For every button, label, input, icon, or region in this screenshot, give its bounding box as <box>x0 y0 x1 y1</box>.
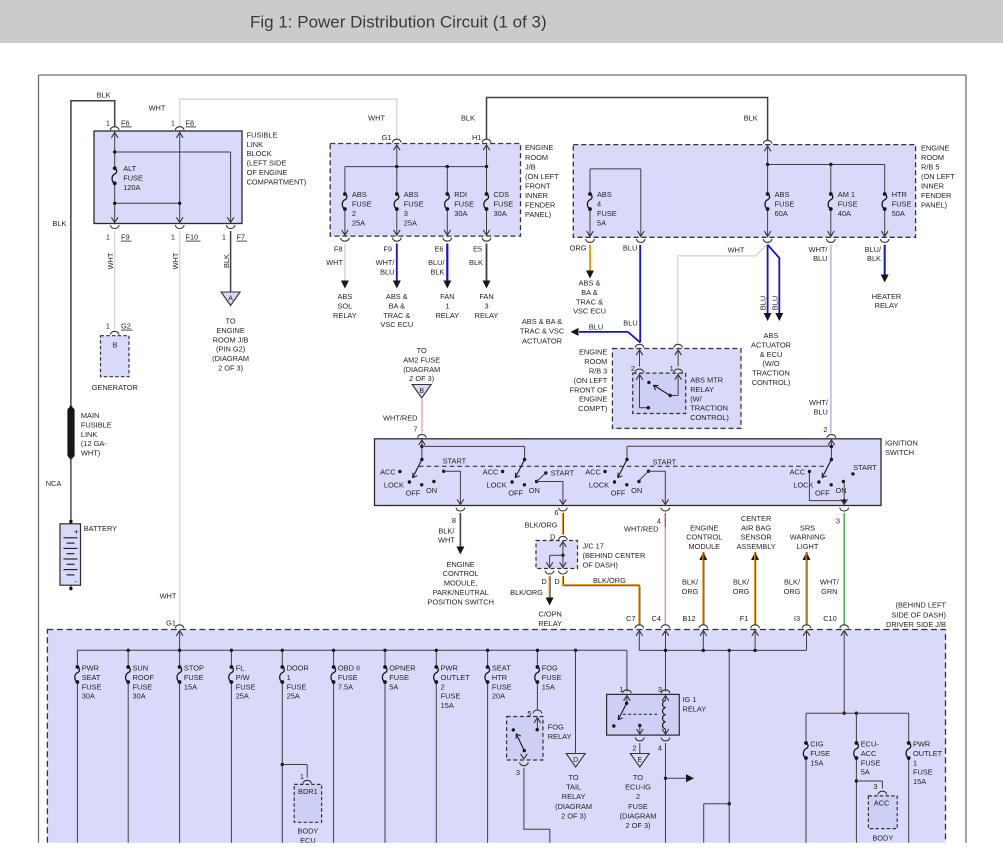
svg-text:SIDE OF DASH): SIDE OF DASH) <box>891 610 946 619</box>
svg-text:ABS &: ABS & <box>386 292 408 301</box>
svg-text:2 OF 3): 2 OF 3) <box>561 811 586 820</box>
svg-text:ON: ON <box>836 486 847 495</box>
svg-text:BLK: BLK <box>431 268 445 277</box>
svg-text:BLK/: BLK/ <box>682 578 699 587</box>
svg-text:30A: 30A <box>454 209 467 218</box>
svg-text:BODY: BODY <box>297 827 318 836</box>
svg-text:3: 3 <box>658 685 662 694</box>
svg-text:FUSE: FUSE <box>492 682 512 691</box>
svg-text:PWR: PWR <box>82 664 99 673</box>
svg-text:P/W: P/W <box>236 673 250 682</box>
svg-text:DOOR: DOOR <box>287 664 309 673</box>
svg-text:FUSE: FUSE <box>913 768 933 777</box>
svg-text:HTR: HTR <box>892 190 907 199</box>
svg-text:FENDER: FENDER <box>921 191 951 200</box>
svg-text:RELAY: RELAY <box>435 311 459 320</box>
svg-text:TRACTION: TRACTION <box>690 404 728 413</box>
svg-text:2: 2 <box>352 209 356 218</box>
svg-text:RDI: RDI <box>454 190 467 199</box>
svg-text:BLK/: BLK/ <box>784 578 801 587</box>
svg-text:SWITCH: SWITCH <box>885 448 914 457</box>
svg-text:LOCK: LOCK <box>793 480 813 489</box>
svg-text:J/C 17: J/C 17 <box>583 542 604 551</box>
svg-text:WHT: WHT <box>160 591 177 600</box>
svg-text:OFF: OFF <box>406 489 421 498</box>
svg-text:F10: F10 <box>186 233 199 242</box>
svg-text:SOL: SOL <box>338 301 353 310</box>
svg-text:WHT: WHT <box>106 252 115 269</box>
svg-text:15A: 15A <box>542 682 555 691</box>
svg-text:FUSE: FUSE <box>628 802 648 811</box>
svg-text:RELAY: RELAY <box>683 705 707 714</box>
svg-text:3: 3 <box>516 768 520 777</box>
svg-text:BA &: BA & <box>581 288 598 297</box>
svg-text:20A: 20A <box>492 692 505 701</box>
svg-text:F6: F6 <box>121 118 130 127</box>
svg-text:2 OF 3): 2 OF 3) <box>218 364 243 373</box>
svg-text:25A: 25A <box>404 218 417 227</box>
svg-text:RELAY: RELAY <box>538 619 562 628</box>
svg-text:ENGINE: ENGINE <box>525 143 553 152</box>
svg-text:1: 1 <box>445 301 449 310</box>
svg-text:D: D <box>541 577 546 586</box>
svg-text:BLU: BLU <box>758 296 767 310</box>
svg-text:C4: C4 <box>652 614 661 623</box>
svg-text:E5: E5 <box>473 244 482 253</box>
svg-text:(DIAGRAM: (DIAGRAM <box>212 354 249 363</box>
svg-text:OUTLET: OUTLET <box>913 749 943 758</box>
svg-text:RELAY: RELAY <box>562 792 586 801</box>
svg-text:ABS: ABS <box>597 190 612 199</box>
svg-text:SUN: SUN <box>133 664 149 673</box>
svg-text:F7: F7 <box>237 233 246 242</box>
svg-text:RELAY: RELAY <box>690 385 714 394</box>
svg-text:15A: 15A <box>441 701 454 710</box>
svg-text:OUTLET: OUTLET <box>441 673 471 682</box>
svg-text:25A: 25A <box>287 692 300 701</box>
svg-text:WHT/RED: WHT/RED <box>624 525 659 534</box>
svg-text:ECU-IG: ECU-IG <box>625 783 651 792</box>
svg-text:2: 2 <box>823 425 827 434</box>
svg-text:FUSE: FUSE <box>389 673 409 682</box>
svg-text:WHT/: WHT/ <box>809 245 829 254</box>
svg-text:ACC: ACC <box>380 467 396 476</box>
svg-text:COMPT): COMPT) <box>578 404 607 413</box>
svg-text:BDR1: BDR1 <box>298 787 318 796</box>
svg-text:ACC: ACC <box>874 799 890 808</box>
svg-text:(W/: (W/ <box>690 394 702 403</box>
svg-text:CDS: CDS <box>494 190 510 199</box>
svg-text:BLU/: BLU/ <box>428 258 445 267</box>
svg-text:ENGINE: ENGINE <box>921 143 949 152</box>
svg-text:4: 4 <box>658 743 662 752</box>
svg-text:5A: 5A <box>389 682 398 691</box>
svg-text:LINK: LINK <box>247 140 264 149</box>
svg-text:ABS: ABS <box>338 292 353 301</box>
svg-text:WHT/: WHT/ <box>820 578 840 587</box>
svg-text:ORG: ORG <box>784 587 801 596</box>
svg-text:TO: TO <box>633 773 643 782</box>
svg-text:CIG: CIG <box>810 740 823 749</box>
svg-text:BA &: BA & <box>389 301 406 310</box>
svg-text:WHT: WHT <box>438 536 455 545</box>
svg-text:ACC: ACC <box>483 467 499 476</box>
svg-text:7.5A: 7.5A <box>338 682 353 691</box>
svg-text:AIR BAG: AIR BAG <box>741 523 771 532</box>
svg-text:ABS: ABS <box>764 331 779 340</box>
svg-text:ABS MTR: ABS MTR <box>690 376 723 385</box>
svg-text:F9: F9 <box>121 233 130 242</box>
svg-text:50A: 50A <box>892 209 905 218</box>
svg-text:(PIN G2): (PIN G2) <box>216 345 245 354</box>
svg-text:ROOM J/B: ROOM J/B <box>213 335 249 344</box>
svg-text:1: 1 <box>106 322 110 331</box>
svg-text:ALT: ALT <box>123 164 136 173</box>
svg-text:OFF: OFF <box>611 489 626 498</box>
svg-text:WHT: WHT <box>326 258 343 267</box>
svg-text:BLU: BLU <box>813 254 827 263</box>
svg-text:TAIL: TAIL <box>566 783 581 792</box>
svg-text:FUSE: FUSE <box>454 200 474 209</box>
svg-text:5A: 5A <box>861 768 870 777</box>
svg-text:RELAY: RELAY <box>475 311 499 320</box>
svg-text:FUSE: FUSE <box>123 174 143 183</box>
svg-text:BLK/ORG: BLK/ORG <box>593 576 626 585</box>
svg-text:TO: TO <box>226 317 236 326</box>
svg-text:(12 GA-: (12 GA- <box>81 439 107 448</box>
svg-text:FUSE: FUSE <box>352 200 372 209</box>
svg-text:HEATER: HEATER <box>872 292 901 301</box>
svg-text:FUSE: FUSE <box>542 673 562 682</box>
svg-text:PARK/NEUTRAL: PARK/NEUTRAL <box>433 588 489 597</box>
svg-text:LIGHT: LIGHT <box>797 542 819 551</box>
svg-text:3: 3 <box>484 301 488 310</box>
svg-text:(W/O: (W/O <box>762 359 779 368</box>
svg-text:TRAC &: TRAC & <box>383 311 410 320</box>
svg-text:(ON LEFT: (ON LEFT <box>525 172 559 181</box>
svg-text:PANEL): PANEL) <box>525 210 551 219</box>
svg-text:INNER: INNER <box>921 182 944 191</box>
svg-text:BLU: BLU <box>623 244 637 253</box>
svg-text:FUSE: FUSE <box>441 692 461 701</box>
svg-text:CONTROL: CONTROL <box>443 569 479 578</box>
svg-text:BLK/ORG: BLK/ORG <box>525 521 558 530</box>
svg-text:FAN: FAN <box>440 292 454 301</box>
svg-text:ACC: ACC <box>790 467 806 476</box>
svg-text:R/B 5: R/B 5 <box>921 163 939 172</box>
svg-text:COMPARTMENT): COMPARTMENT) <box>247 177 307 186</box>
svg-text:WHT/RED: WHT/RED <box>383 414 418 423</box>
svg-text:PWR: PWR <box>913 740 930 749</box>
svg-text:1: 1 <box>913 758 917 767</box>
svg-text:ON: ON <box>426 486 437 495</box>
svg-text:OFF: OFF <box>508 489 523 498</box>
svg-text:MODULE: MODULE <box>688 542 720 551</box>
svg-text:IGNITION: IGNITION <box>885 439 918 448</box>
svg-text:(DIAGRAM: (DIAGRAM <box>555 802 592 811</box>
svg-text:TRAC &: TRAC & <box>576 297 603 306</box>
svg-text:F8: F8 <box>334 244 343 253</box>
svg-text:ABS: ABS <box>352 190 367 199</box>
svg-text:BLK: BLK <box>53 219 67 228</box>
svg-text:3: 3 <box>836 516 840 525</box>
svg-text:I3: I3 <box>794 614 800 623</box>
svg-text:BODY: BODY <box>872 834 893 843</box>
svg-text:R/B 3: R/B 3 <box>589 367 607 376</box>
svg-text:1: 1 <box>171 118 175 127</box>
svg-text:IG 1: IG 1 <box>683 695 697 704</box>
svg-text:CONTROL: CONTROL <box>686 533 722 542</box>
svg-text:CONTROL): CONTROL) <box>752 378 791 387</box>
svg-text:BLK/ORG: BLK/ORG <box>510 588 543 597</box>
svg-text:WHT: WHT <box>149 104 166 113</box>
svg-text:RELAY: RELAY <box>548 732 572 741</box>
svg-text:D: D <box>573 757 578 764</box>
svg-text:2 OF 3): 2 OF 3) <box>625 821 650 830</box>
svg-text:AM2 FUSE: AM2 FUSE <box>403 355 440 364</box>
svg-text:7: 7 <box>413 425 417 434</box>
svg-text:Fig 1: Power Distribution Circ: Fig 1: Power Distribution Circuit (1 of … <box>250 13 547 32</box>
svg-text:BLU: BLU <box>380 268 394 277</box>
svg-text:15A: 15A <box>184 682 197 691</box>
svg-text:6: 6 <box>554 508 558 517</box>
svg-text:LOCK: LOCK <box>589 480 609 489</box>
svg-text:VSC ECU: VSC ECU <box>573 307 606 316</box>
svg-text:BLU: BLU <box>814 407 828 416</box>
svg-text:SENSOR: SENSOR <box>740 533 771 542</box>
svg-text:F1: F1 <box>740 614 749 623</box>
svg-text:ORG: ORG <box>733 587 750 596</box>
svg-text:SRS: SRS <box>800 523 815 532</box>
svg-text:(DIAGRAM: (DIAGRAM <box>403 365 440 374</box>
svg-text:FUSIBLE: FUSIBLE <box>81 420 112 429</box>
svg-text:WHT: WHT <box>368 114 385 123</box>
svg-text:PANEL): PANEL) <box>921 201 947 210</box>
svg-text:GRN: GRN <box>821 587 837 596</box>
svg-text:1: 1 <box>222 233 226 242</box>
svg-text:ACTUATOR: ACTUATOR <box>522 337 562 346</box>
svg-text:POSITION SWITCH: POSITION SWITCH <box>427 597 494 606</box>
svg-text:FUSE: FUSE <box>338 673 358 682</box>
svg-text:1: 1 <box>171 233 175 242</box>
svg-text:ENGINE: ENGINE <box>690 523 718 532</box>
svg-text:BATTERY: BATTERY <box>84 524 117 533</box>
svg-text:G1: G1 <box>382 133 392 142</box>
svg-text:ROOM: ROOM <box>921 153 944 162</box>
svg-text:MAIN: MAIN <box>81 411 99 420</box>
svg-text:25A: 25A <box>236 692 249 701</box>
svg-text:1: 1 <box>300 772 304 781</box>
svg-text:FUSE: FUSE <box>892 200 912 209</box>
svg-text:15A: 15A <box>810 758 823 767</box>
svg-text:ABS: ABS <box>404 190 419 199</box>
svg-text:ROOM: ROOM <box>525 153 548 162</box>
svg-text:30A: 30A <box>133 692 146 701</box>
svg-text:ACC: ACC <box>861 749 877 758</box>
svg-text:START: START <box>551 469 575 478</box>
svg-text:BLU: BLU <box>623 318 637 327</box>
svg-text:FL: FL <box>236 664 245 673</box>
svg-text:HTR: HTR <box>492 673 507 682</box>
svg-text:WHT: WHT <box>171 252 180 269</box>
svg-text:ENGINE: ENGINE <box>579 348 607 357</box>
svg-text:4: 4 <box>597 200 601 209</box>
svg-text:OF DASH): OF DASH) <box>583 561 618 570</box>
svg-text:OFF: OFF <box>815 489 830 498</box>
svg-text:(ON LEFT: (ON LEFT <box>574 376 608 385</box>
svg-text:LOCK: LOCK <box>487 480 507 489</box>
svg-text:1: 1 <box>106 233 110 242</box>
svg-text:START: START <box>443 457 467 466</box>
svg-text:GENERATOR: GENERATOR <box>92 383 138 392</box>
svg-text:TRAC & VSC: TRAC & VSC <box>520 327 565 336</box>
svg-text:FUSE: FUSE <box>236 682 256 691</box>
svg-text:FUSE: FUSE <box>838 200 858 209</box>
svg-text:MODULE,: MODULE, <box>444 579 478 588</box>
svg-text:1: 1 <box>287 673 291 682</box>
svg-text:(BEHIND CENTER: (BEHIND CENTER <box>583 551 646 560</box>
svg-text:J/B: J/B <box>525 162 536 171</box>
svg-text:FAN: FAN <box>479 292 493 301</box>
svg-text:TO: TO <box>417 346 427 355</box>
svg-text:FRONT OF: FRONT OF <box>570 385 608 394</box>
svg-text:ECU-: ECU- <box>861 740 880 749</box>
svg-text:+: + <box>74 527 79 537</box>
svg-text:2: 2 <box>632 743 636 752</box>
svg-text:SEAT: SEAT <box>492 664 511 673</box>
svg-text:WHT: WHT <box>728 246 745 255</box>
svg-text:(DIAGRAM: (DIAGRAM <box>620 811 657 820</box>
svg-text:D: D <box>554 577 559 586</box>
svg-text:FRONT: FRONT <box>525 181 551 190</box>
svg-text:TRACTION: TRACTION <box>752 369 790 378</box>
svg-text:OBD II: OBD II <box>338 664 360 673</box>
svg-text:FUSE: FUSE <box>597 209 617 218</box>
svg-text:ENGINE: ENGINE <box>447 560 475 569</box>
svg-text:B: B <box>113 341 118 350</box>
svg-text:ASSEMBLY: ASSEMBLY <box>736 542 775 551</box>
svg-text:A: A <box>228 295 233 302</box>
svg-text:FUSE: FUSE <box>82 682 102 691</box>
svg-text:RELAY: RELAY <box>333 311 357 320</box>
svg-text:120A: 120A <box>123 183 140 192</box>
svg-text:BLK: BLK <box>469 258 483 267</box>
svg-text:BLK: BLK <box>867 254 881 263</box>
svg-text:C/OPN: C/OPN <box>538 610 561 619</box>
svg-text:ENGINE: ENGINE <box>216 326 244 335</box>
svg-text:2 OF 3): 2 OF 3) <box>409 374 434 383</box>
svg-text:FUSE: FUSE <box>775 200 795 209</box>
svg-text:WARNING: WARNING <box>790 533 826 542</box>
svg-text:FENDER: FENDER <box>525 201 555 210</box>
svg-text:STOP: STOP <box>184 664 204 673</box>
svg-text:G1: G1 <box>166 619 176 628</box>
svg-text:-: - <box>74 576 77 586</box>
svg-text:ACTUATOR: ACTUATOR <box>751 340 791 349</box>
svg-text:ACC: ACC <box>585 467 601 476</box>
svg-text:BLU/: BLU/ <box>865 245 882 254</box>
svg-text:2: 2 <box>636 792 640 801</box>
svg-text:BLK: BLK <box>461 114 475 123</box>
svg-text:FUSE: FUSE <box>861 758 881 767</box>
svg-text:2: 2 <box>631 364 635 373</box>
svg-text:ROOF: ROOF <box>133 673 155 682</box>
svg-text:(BEHIND LEFT: (BEHIND LEFT <box>895 600 946 609</box>
svg-text:1: 1 <box>670 364 674 373</box>
svg-text:BLK/: BLK/ <box>438 526 455 535</box>
svg-text:ABS: ABS <box>775 190 790 199</box>
svg-text:WHT/: WHT/ <box>376 258 396 267</box>
svg-text:25A: 25A <box>352 218 365 227</box>
svg-text:ORG: ORG <box>570 244 587 253</box>
svg-text:WHT/: WHT/ <box>809 398 829 407</box>
svg-text:60A: 60A <box>775 209 788 218</box>
svg-text:RELAY: RELAY <box>875 301 899 310</box>
svg-text:ON: ON <box>529 486 540 495</box>
svg-text:NCA: NCA <box>46 479 62 488</box>
svg-text:FUSE: FUSE <box>810 749 830 758</box>
svg-text:2: 2 <box>441 682 445 691</box>
svg-text:OPNER: OPNER <box>389 664 415 673</box>
svg-text:BLU: BLU <box>589 322 603 331</box>
svg-text:1: 1 <box>106 118 110 127</box>
svg-text:E: E <box>637 757 642 764</box>
svg-text:5A: 5A <box>597 218 606 227</box>
svg-text:B12: B12 <box>682 614 695 623</box>
svg-text:BLK: BLK <box>97 91 111 100</box>
svg-text:& ECU: & ECU <box>760 350 783 359</box>
svg-text:LINK: LINK <box>81 430 98 439</box>
svg-text:FUSIBLE: FUSIBLE <box>247 130 278 139</box>
svg-text:ABS & BA &: ABS & BA & <box>522 317 562 326</box>
svg-text:START: START <box>653 458 677 467</box>
svg-text:15A: 15A <box>913 777 926 786</box>
svg-text:FUSE: FUSE <box>287 682 307 691</box>
svg-text:ABS &: ABS & <box>579 279 601 288</box>
svg-text:FOG: FOG <box>542 664 558 673</box>
svg-text:F8: F8 <box>186 118 195 127</box>
svg-text:8: 8 <box>452 516 456 525</box>
svg-text:C10: C10 <box>823 614 837 623</box>
svg-text:3: 3 <box>404 209 408 218</box>
svg-text:START: START <box>853 463 877 472</box>
svg-text:B: B <box>419 388 424 395</box>
svg-text:OF ENGINE: OF ENGINE <box>247 168 288 177</box>
svg-text:ORG: ORG <box>682 587 699 596</box>
svg-text:LOCK: LOCK <box>384 480 404 489</box>
svg-text:WHT): WHT) <box>81 449 100 458</box>
svg-text:BLK: BLK <box>744 114 758 123</box>
svg-text:FUSE: FUSE <box>133 682 153 691</box>
svg-text:DRIVER SIDE J/B: DRIVER SIDE J/B <box>886 620 946 629</box>
svg-text:ON: ON <box>631 486 642 495</box>
svg-text:E6: E6 <box>434 244 443 253</box>
svg-text:BLU: BLU <box>771 296 780 310</box>
svg-text:FUSE: FUSE <box>494 200 514 209</box>
svg-text:C7: C7 <box>626 614 635 623</box>
svg-text:1: 1 <box>619 685 623 694</box>
svg-text:40A: 40A <box>838 209 851 218</box>
svg-text:30A: 30A <box>494 209 507 218</box>
svg-text:30A: 30A <box>82 692 95 701</box>
svg-text:ENGINE: ENGINE <box>579 395 607 404</box>
svg-text:ROOM: ROOM <box>584 357 607 366</box>
svg-text:AM 1: AM 1 <box>838 190 855 199</box>
svg-text:VSC ECU: VSC ECU <box>380 320 413 329</box>
svg-text:(LEFT SIDE: (LEFT SIDE <box>247 159 287 168</box>
svg-text:FOG: FOG <box>548 723 564 732</box>
svg-text:F9: F9 <box>383 244 392 253</box>
